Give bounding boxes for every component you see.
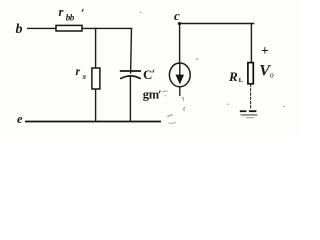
svg-text:bb: bb — [66, 13, 75, 23]
svg-text:R: R — [228, 69, 238, 84]
bottom rail from e — [25, 121, 161, 123]
wire capacitor to bottom rail — [129, 76, 131, 121]
label V_o — [259, 63, 274, 80]
label gm (gm.V faded) — [143, 88, 168, 102]
wire c corner down to current source — [179, 24, 181, 65]
svg-text:r: r — [59, 5, 64, 19]
wire R_L to ground — [250, 84, 252, 109]
top-right wire — [179, 23, 254, 25]
svg-text:r: r — [76, 64, 81, 78]
capacitor C' top plate — [120, 70, 141, 72]
svg-text:o: o — [270, 71, 274, 80]
label C' — [143, 67, 154, 82]
resistor r_bb' — [56, 25, 82, 31]
current source circle — [169, 63, 190, 87]
label r_pi — [76, 64, 87, 81]
svg-text:+: + — [261, 43, 269, 58]
svg-text:e: e — [17, 112, 23, 126]
node dot at c corner — [178, 22, 181, 25]
svg-text:π: π — [82, 73, 86, 81]
svg-text:L: L — [239, 77, 244, 84]
capacitor C' bottom plate — [120, 76, 141, 79]
faint scan speckles — [140, 12, 285, 107]
wire b to r_bb' — [27, 27, 57, 29]
label r_bb' — [59, 5, 84, 23]
wire r_bb' to capacitor corner — [82, 27, 132, 29]
wire: right branch down to R_L — [250, 23, 252, 63]
current source arrow shaft — [179, 64, 181, 77]
svg-text:b: b — [16, 22, 23, 37]
label R_L — [228, 69, 244, 84]
wire r_pi to bottom rail — [95, 89, 97, 122]
svg-text:C: C — [143, 67, 152, 82]
ground — [240, 111, 257, 118]
resistor R_L — [248, 63, 253, 84]
wire: capacitor branch down from top rail — [130, 28, 133, 74]
resistor r_pi — [92, 68, 100, 89]
wire: r_pi branch from top rail — [95, 28, 97, 69]
wire below current source (faded) — [179, 87, 181, 96]
current source arrowhead — [176, 75, 185, 85]
svg-text:gm: gm — [143, 88, 160, 102]
faint scan marks near current source bottom — [167, 97, 185, 123]
svg-text:c: c — [174, 8, 180, 23]
